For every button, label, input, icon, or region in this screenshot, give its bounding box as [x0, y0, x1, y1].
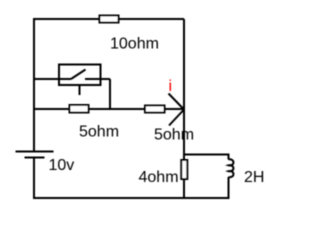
inductor 2H coil [229, 159, 234, 177]
wire switch branch left lead [34, 78, 71, 80]
switch S1 enclosure box [59, 65, 101, 86]
svg-text:4ohm: 4ohm [139, 169, 179, 186]
wire inductor branch right lower [228, 177, 230, 199]
wire middle rail [34, 108, 184, 110]
resistor 10ohm body [100, 16, 119, 23]
wire inductor branch top [184, 154, 229, 156]
wire bottom rail [33, 197, 229, 199]
svg-text:5ohm: 5ohm [154, 127, 194, 144]
battery V1 positive plate [16, 151, 54, 153]
switch S1 blade (open) [71, 70, 86, 80]
wire inductor branch right upper [228, 154, 230, 160]
wire top (node A to node B) [34, 18, 184, 20]
svg-text:10ohm: 10ohm [110, 36, 159, 53]
svg-text:i: i [169, 78, 173, 95]
svg-text:5ohm: 5ohm [79, 124, 119, 141]
current arrow upper barb [169, 94, 185, 110]
current arrow lower barb [169, 110, 184, 126]
battery V1 negative plate [25, 157, 45, 159]
svg-text:10v: 10v [49, 157, 75, 174]
svg-text:2H: 2H [244, 169, 264, 186]
wire left branch lower (battery - to bottom rail) [33, 158, 35, 199]
wire left branch upper (battery + to node A) [33, 18, 35, 151]
wire switch branch down connector [109, 79, 111, 109]
resistor 5ohm left body [70, 105, 89, 113]
resistor 4ohm body [181, 160, 187, 179]
resistor 5ohm right body [145, 106, 165, 113]
wire right branch [183, 19, 185, 198]
switch S1 actuator stub [79, 85, 81, 95]
wire switch branch right lead [85, 78, 110, 80]
